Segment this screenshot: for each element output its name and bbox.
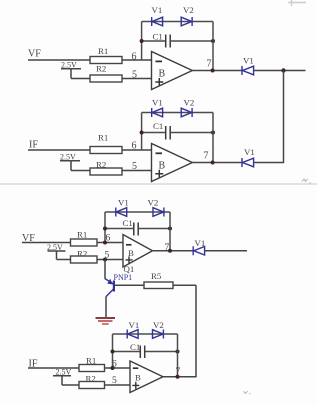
wire collector to ground (105, 297, 107, 318)
svg-text:V1: V1 (129, 320, 140, 330)
svg-text:R5: R5 (151, 271, 162, 281)
svg-text:B: B (135, 373, 141, 383)
svg-text:7: 7 (204, 151, 209, 162)
diode V1 (circuit 1 feedback) (152, 5, 163, 26)
diode V1 (circuit 3 output) (193, 238, 205, 255)
svg-text:R1: R1 (77, 230, 87, 240)
wire 2.5V stub (circuit 2) (60, 161, 80, 171)
resistor R5 (144, 271, 173, 289)
resistor R1 (circuit 4) (79, 356, 105, 372)
junction feedback / pin 6 (circuit 4) (111, 366, 115, 370)
svg-text:C1: C1 (153, 32, 163, 42)
wire VF to R1 (circuit 3) (22, 242, 71, 244)
svg-text:R1: R1 (98, 46, 108, 56)
wire feedback right vertical (circuit 2) (212, 113, 214, 163)
scan artifact bottom-right (244, 391, 252, 394)
svg-text:B: B (159, 69, 166, 80)
wire 2.5V to R2 (circuit 3) (57, 259, 71, 261)
svg-text:V1: V1 (152, 98, 163, 108)
wire 2.5V stub (circuit 4) (53, 376, 71, 385)
wire feedback left vertical (circuit 2) (141, 113, 143, 151)
resistor R1 (circuit 3) (71, 230, 98, 247)
junction output / feedback (circuit 4) (176, 375, 180, 379)
wire R1 to pin 6 (122, 149, 152, 151)
wire feedback right vertical (circuit 3) (169, 212, 171, 251)
diode V2 (circuit 2 feedback) (181, 98, 194, 118)
wire R2 to pin 5 (circuit 3) (97, 259, 123, 261)
resistor R2 (circuit 3) (71, 249, 98, 264)
wire 2.5V stub (circuit 3) (48, 251, 66, 260)
wire output op-amp 1 (192, 70, 242, 72)
svg-text:R1: R1 (98, 133, 108, 143)
junction C1 rail left (circuit 1) (140, 39, 144, 43)
wire R1 to pin 6 (circuit 3) (97, 242, 123, 244)
wire R2 to pin 5 (circuit 4) (105, 384, 131, 386)
scan artifact top-right (288, 0, 306, 6)
wire emitter vertical (104, 260, 106, 279)
svg-text:V2: V2 (153, 320, 164, 330)
resistor R2 (circuit 4) (79, 374, 105, 389)
junction output / feedback (circuit 2) (211, 161, 215, 165)
wire feedback top rail (circuit 3) (105, 211, 170, 213)
junction pin5 / emitter (circuit 3) (103, 258, 107, 262)
wire feedback left vertical (circuit 4) (112, 334, 114, 368)
wire 2.5V stub (61, 69, 81, 79)
svg-text:R2: R2 (96, 64, 106, 74)
wire 2.5V to R2 (71, 78, 90, 80)
wire feedback vertical R5 to op-amp 4 output (195, 285, 197, 376)
svg-text:VF: VF (28, 49, 41, 60)
diode V1 (circuit 1 output) (242, 56, 254, 76)
capacitor C1 (circuit 2) (142, 121, 213, 140)
svg-text:V2: V2 (184, 98, 195, 108)
svg-text:V1: V1 (152, 5, 163, 15)
svg-text:IF: IF (29, 140, 38, 151)
wire R2 to pin 5 (122, 170, 152, 172)
op-amp U2B (circuit 3) (123, 235, 153, 268)
scan artifact mid-right (302, 179, 311, 184)
op-amp U1B (circuit 2) (152, 144, 193, 182)
wire feedback right vertical (circuit 4) (177, 334, 179, 377)
wire feedback left vertical (circuit 3) (104, 212, 106, 243)
wire VF to R1 (28, 59, 90, 61)
diode V2 (circuit 4 feedback) (153, 320, 164, 339)
capacitor C1 (circuit 3) (105, 218, 170, 236)
junction output / feedback (circuit 3) (168, 249, 172, 253)
wire feedback top rail (circuit 4) (113, 333, 178, 335)
wire output op-amp 4 (163, 376, 197, 378)
wire feedback top rail (circuit 1) (142, 21, 213, 23)
junction C1 rail right (circuit 3) (168, 227, 172, 231)
svg-text:C1: C1 (123, 218, 133, 228)
junction C1 rail left (circuit 4) (111, 350, 115, 354)
wire 2.5V to R2 (circuit 4) (62, 384, 79, 386)
wire feedback top rail (circuit 2) (142, 112, 213, 114)
wire diode to OR vertical (254, 162, 285, 164)
wire IF to R1 (circuit 4) (28, 367, 79, 369)
wire R1 to pin 6 (circuit 4) (105, 367, 131, 369)
svg-text:5: 5 (132, 161, 137, 172)
resistor R1 (circuit 1) (90, 46, 122, 64)
separator line between scanned halves (0, 183, 317, 185)
junction C1 rail left (circuit 3) (103, 227, 107, 231)
junction output / feedback (circuit 1) (211, 69, 215, 73)
svg-text:6: 6 (132, 52, 137, 63)
junction C1 rail right (circuit 1) (211, 39, 215, 43)
diode V1 (circuit 2 feedback) (152, 98, 163, 118)
junction C1 rail left (circuit 2) (140, 131, 144, 135)
op-amp U2B (circuit 4) (130, 361, 163, 393)
wire base to R5 (115, 284, 144, 286)
junction C1 rail right (circuit 2) (211, 131, 215, 135)
wire output end (circuit 3) (205, 250, 247, 252)
svg-text:7: 7 (207, 59, 212, 70)
resistor R1 (circuit 2) (90, 133, 122, 154)
diode V2 (circuit 1 feedback) (181, 5, 194, 26)
svg-text:V1: V1 (118, 198, 129, 208)
wire diode to OR junction (254, 70, 306, 72)
junction wired-OR node (281, 68, 285, 72)
wire R5 to feedback corner (173, 284, 196, 286)
svg-text:5: 5 (132, 70, 137, 81)
diode V1 (circuit 2 output) (242, 147, 255, 167)
capacitor C1 (circuit 1) (142, 32, 213, 48)
wire R1 to pin 6 (122, 59, 152, 61)
wire R2 to pin 5 (122, 78, 152, 80)
op-amp U1B (circuit 1) (152, 52, 193, 90)
svg-text:C1: C1 (153, 121, 163, 131)
wire feedback right vertical (circuit 1) (212, 22, 214, 71)
diode V1 (circuit 4 feedback) (127, 320, 139, 339)
junction C1 rail right (circuit 4) (176, 350, 180, 354)
transistor Q1 PNP1 symbol (105, 279, 114, 297)
svg-text:5: 5 (112, 376, 117, 386)
wire output op-amp 2 (192, 162, 242, 164)
wire 2.5V to R2 (71, 170, 90, 172)
diode V2 (circuit 3 feedback) (148, 198, 164, 217)
svg-text:PNP1: PNP1 (114, 273, 133, 282)
resistor R2 (circuit 1) (90, 64, 122, 83)
wire OR node down to circuit 2 output (283, 71, 285, 163)
capacitor C1 (circuit 4) (113, 342, 178, 358)
svg-text:V2: V2 (183, 5, 194, 15)
svg-text:6: 6 (132, 141, 137, 152)
ground symbol (96, 318, 116, 324)
wire feedback left vertical (circuit 1) (141, 22, 143, 61)
diode V1 (circuit 3 feedback) (116, 198, 129, 217)
svg-text:V2: V2 (148, 198, 159, 208)
resistor R2 (circuit 2) (90, 160, 122, 176)
junction feedback / pin 6 (circuit 3) (103, 241, 107, 245)
svg-text:V1: V1 (243, 56, 254, 66)
wire output op-amp 3 (153, 250, 194, 252)
svg-text:V1: V1 (244, 147, 255, 157)
svg-text:C1: C1 (130, 342, 140, 352)
wire IF to R1 (28, 149, 90, 151)
